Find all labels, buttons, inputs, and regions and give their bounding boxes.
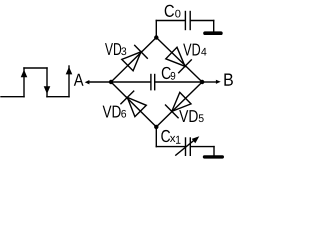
waveform down arrow — [44, 86, 51, 94]
variable capacitor Cx1 arrow shaft — [176, 139, 196, 156]
wire node A to bridge left vertex — [89, 81, 111, 83]
label Cx1 subscript x — [170, 136, 175, 142]
wire capacitor C9 to bridge right vertex — [155, 81, 202, 83]
waveform high segment — [24, 67, 47, 69]
waveform falling edge — [46, 68, 48, 97]
diode VD5 cathode bar — [166, 105, 179, 118]
label VD3 subscript — [121, 47, 126, 55]
label VD4 subscript — [201, 48, 206, 56]
wire bridge bottom vertex to right vertex (VD5 branch) — [156, 82, 202, 127]
label C0 text — [165, 5, 174, 17]
diode VD3 triangle — [122, 52, 141, 71]
wire bridge left vertex to bottom vertex (VD6 branch) — [111, 82, 156, 127]
label C0 subscript — [175, 10, 180, 18]
wire to capacitor Cx1 left plate — [156, 146, 185, 148]
capacitor C9 right plate — [154, 75, 156, 90]
waveform low segment 2 — [47, 96, 69, 98]
wire top vertex up to C0 — [155, 21, 157, 38]
top ground symbol — [205, 31, 221, 35]
label VD5 subscript — [199, 114, 204, 122]
bottom ground stem — [213, 147, 215, 156]
capacitor Cx1 left plate — [185, 138, 187, 155]
capacitor C0 left plate — [184, 12, 186, 30]
waveform rising edge 1 — [23, 68, 25, 97]
label VD6 subscript — [121, 110, 126, 118]
wire to capacitor C0 left plate — [156, 20, 185, 22]
wire bridge right vertex to node B — [202, 81, 216, 83]
capacitor C0 right plate — [189, 12, 191, 30]
label VD5 text — [179, 110, 198, 122]
label Cx1 text — [161, 130, 170, 142]
arrowhead pointing right toward node B — [216, 80, 221, 84]
diode VD3 cathode bar — [135, 45, 148, 58]
waveform low segment 1 — [1, 96, 24, 98]
wire bridge left vertex to capacitor C9 — [111, 81, 150, 83]
top ground stem — [213, 21, 215, 32]
wire bridge left vertex to top vertex (VD3 branch) — [111, 38, 156, 83]
diode VD6 triangle — [127, 97, 146, 116]
junction dot bottom vertex — [154, 125, 158, 129]
wire bottom vertex down to Cx1 — [155, 127, 157, 147]
label A — [74, 74, 84, 86]
junction dot top vertex — [154, 35, 158, 39]
wire capacitor C0 to top ground — [191, 20, 214, 22]
label C9 text — [162, 67, 171, 79]
bottom ground symbol — [205, 155, 223, 158]
diode VD4 cathode bar — [179, 60, 192, 73]
waveform rising edge 2 — [68, 66, 70, 97]
label Cx1 subscript 1 — [176, 136, 180, 144]
junction dot left vertex (node A side) — [109, 80, 113, 84]
capacitor Cx1 right plate — [189, 138, 191, 155]
label VD6 text — [103, 106, 121, 118]
diode VD4 triangle — [166, 47, 185, 66]
wire bridge top vertex to right vertex (VD4 branch) — [156, 38, 202, 83]
arrowhead pointing left toward node A — [85, 80, 90, 84]
variable capacitor Cx1 arrowhead — [192, 136, 200, 143]
diode VD5 triangle — [172, 92, 191, 111]
junction dot right vertex (node B side) — [200, 80, 204, 84]
wire capacitor Cx1 to bottom ground — [191, 146, 214, 148]
capacitor C9 left plate — [150, 75, 152, 90]
label C9 subscript — [171, 72, 176, 80]
label B — [224, 74, 232, 86]
waveform up arrow 1 — [21, 70, 28, 78]
label VD4 text — [183, 44, 200, 56]
diode VD6 cathode bar — [121, 91, 134, 104]
waveform up arrow 2 — [66, 67, 73, 75]
label VD3 text — [105, 43, 121, 55]
